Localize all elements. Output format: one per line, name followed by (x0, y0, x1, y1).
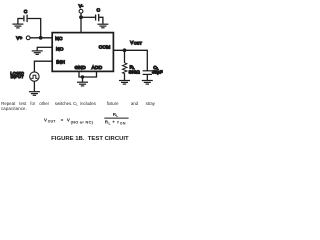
ground G3 (NO pin) (32, 47, 43, 54)
wire INH pin to logic source (34, 61, 52, 71)
svg-text:V-: V- (79, 4, 84, 9)
svg-text:L: L (109, 121, 111, 125)
node junction on V- wire (79, 15, 83, 19)
label VOUT (130, 40, 142, 46)
node junction on V+ rail (39, 36, 43, 40)
svg-text:ADD: ADD (92, 65, 103, 71)
ground G4 (logic source) (29, 92, 40, 96)
wire V+ to NC pin (30, 37, 52, 39)
svg-text:r: r (117, 120, 119, 125)
formula VOUT = V(NO or NC) x RL/(RL+rON) (44, 112, 129, 125)
wire C1 right lead to corner, down to V+ rail (28, 19, 41, 38)
capacitor CL (143, 50, 152, 80)
svg-text:=: = (61, 117, 64, 122)
svg-text:(NO or NC): (NO or NC) (71, 120, 94, 125)
wire GND pin stub (78, 71, 80, 77)
pulse source V2 (logic input generator) (30, 72, 39, 81)
wire C2 right lead (99, 17, 103, 23)
terminal V- (top) (79, 4, 84, 13)
svg-text:L: L (116, 114, 118, 118)
note text (1, 101, 156, 111)
svg-text:300Ω: 300Ω (129, 69, 141, 74)
svg-text:OUT: OUT (48, 119, 56, 123)
label RL 300ohm (129, 64, 141, 74)
svg-text:OUT: OUT (134, 42, 143, 46)
svg-text:V+: V+ (16, 36, 22, 41)
svg-text:capacitance.: capacitance. (1, 106, 27, 111)
wire V- down into box top (80, 13, 82, 32)
svg-text:NO: NO (56, 47, 64, 53)
svg-text:GND: GND (75, 65, 87, 71)
wire ADD pin stub (96, 71, 98, 77)
svg-text:35pF: 35pF (152, 69, 163, 74)
capacitor C2 (V- decoupling) (96, 7, 101, 21)
svg-text:+: + (112, 120, 115, 125)
ground G6 (RL) (119, 81, 130, 85)
wire joining GND and ADD (78, 76, 97, 78)
resistor RL (123, 50, 127, 80)
label LOGIC INPUT (10, 70, 24, 79)
svg-text:C: C (97, 7, 101, 12)
wire C1 left lead (17, 18, 23, 20)
wire source to ground (33, 81, 35, 91)
svg-text:NC: NC (55, 36, 63, 42)
IC U1 (analog switch under test) (52, 33, 113, 72)
ground G5 (GND/ADD) (77, 77, 88, 86)
svg-text:C: C (24, 9, 28, 14)
capacitor C1 (V+ decoupling, top left) (24, 9, 28, 22)
svg-text:FIGURE 1B. TEST CIRCUIT: FIGURE 1B. TEST CIRCUIT (51, 136, 129, 142)
svg-text:INH: INH (56, 60, 65, 66)
svg-text:COM: COM (99, 45, 111, 51)
svg-text:INPUT: INPUT (11, 74, 24, 79)
ground G1 (top left) (12, 19, 23, 28)
wire COM pin to output node (113, 49, 147, 51)
ground G2 (right of C2) (97, 24, 108, 28)
terminal V+ (16, 36, 30, 41)
svg-text:ON: ON (120, 121, 126, 125)
label CL 35pF (152, 65, 163, 75)
node junction GND/ADD (81, 75, 84, 78)
wire NO pin to ground (37, 46, 52, 48)
ground G7 (CL) (142, 81, 153, 85)
node junction output (123, 48, 127, 52)
wire to capacitor C2 (81, 16, 95, 18)
